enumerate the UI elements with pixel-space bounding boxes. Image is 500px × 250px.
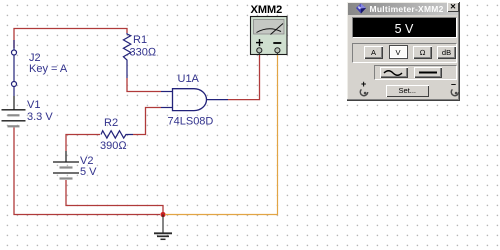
- button V (selected): [389, 45, 408, 59]
- svg-text:390Ω: 390Ω: [100, 140, 127, 152]
- svg-text:Key = A: Key = A: [29, 63, 68, 75]
- wire: V2 bottom to junction: [66, 180, 163, 215]
- wire: V2 top to R2: [66, 135, 100, 152]
- svg-text:XMM2: XMM2: [251, 4, 283, 16]
- terminal jack -: [450, 87, 460, 97]
- button dB: [437, 46, 456, 59]
- terminal stubs: [258, 53, 260, 55]
- meter face: [254, 20, 285, 35]
- title bar: [348, 3, 458, 15]
- multimeter XMM2 icon box: [251, 17, 288, 55]
- button ohm: [413, 46, 432, 59]
- resistor R1: [123, 33, 130, 78]
- battery V2: [53, 151, 79, 179]
- svg-text:R2: R2: [104, 117, 118, 129]
- button DC line: [414, 67, 442, 78]
- svg-text:5 V: 5 V: [80, 166, 97, 178]
- mode panel: [352, 43, 457, 63]
- AND gate U1A input leads: [161, 92, 173, 108]
- wire: V1 bottom to ground rail: [14, 128, 160, 215]
- wire: switch top to R1 top: [14, 29, 127, 49]
- AND gate U1A body: [173, 89, 207, 111]
- terminal jack +: [359, 87, 369, 97]
- AND gate output lead: [207, 99, 229, 101]
- svg-text:3.3 V: 3.3 V: [27, 111, 53, 123]
- terminal +: [257, 48, 262, 53]
- signal panel: [374, 65, 458, 80]
- svg-text:R1: R1: [133, 34, 147, 46]
- battery V1: [2, 96, 26, 126]
- wire: junction to multimeter - (orange): [165, 55, 278, 215]
- minus label: [451, 79, 456, 89]
- wire: R2 right up to gate input B: [133, 108, 161, 135]
- plus mark: [256, 39, 263, 46]
- svg-text:74LS08D: 74LS08D: [168, 116, 214, 128]
- meter arc: [257, 29, 282, 33]
- plus label: [361, 79, 366, 89]
- svg-text:330Ω: 330Ω: [130, 47, 157, 59]
- junction node: [160, 212, 165, 217]
- close button: [447, 2, 459, 12]
- terminal -: [275, 48, 280, 53]
- switch J2: [12, 40, 17, 96]
- wire: R1 bottom to gate input A: [127, 78, 161, 92]
- svg-text:V1: V1: [27, 99, 40, 111]
- Set button: [386, 85, 430, 97]
- minus mark: [273, 42, 281, 44]
- button A: [364, 46, 383, 59]
- resistor R2: [101, 131, 133, 138]
- meter needle: [271, 24, 284, 35]
- multimeter panel window: [346, 1, 460, 101]
- button sine: [380, 67, 408, 78]
- wire: gate output to multimeter +: [228, 55, 260, 100]
- ground: [154, 215, 172, 240]
- display 5 V: [352, 17, 457, 38]
- svg-text:U1A: U1A: [178, 73, 200, 85]
